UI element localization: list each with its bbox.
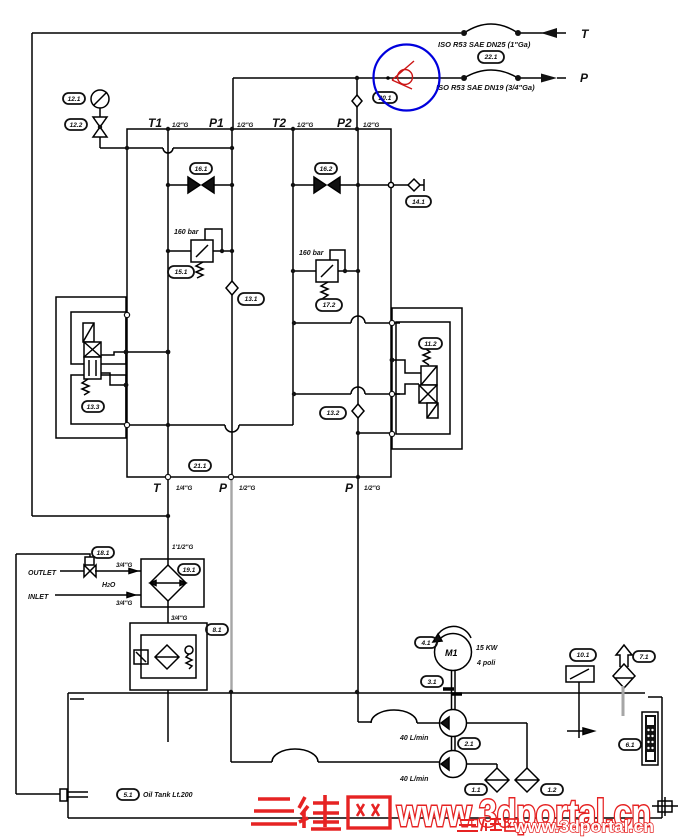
svg-text:17.2: 17.2: [323, 302, 336, 309]
svg-text:11.2: 11.2: [424, 341, 437, 348]
svg-text:18.1: 18.1: [97, 550, 110, 557]
svg-text:1'1/2"G: 1'1/2"G: [172, 544, 193, 551]
svg-text:8.1: 8.1: [212, 627, 221, 634]
svg-text:P: P: [219, 481, 228, 495]
svg-text:1/2"G: 1/2"G: [172, 122, 189, 129]
svg-text:P: P: [580, 71, 589, 85]
svg-text:40 L/min: 40 L/min: [399, 735, 428, 742]
svg-text:16.2: 16.2: [320, 166, 333, 173]
svg-text:13.1: 13.1: [245, 296, 258, 303]
svg-text:T: T: [153, 481, 162, 495]
svg-text:M1: M1: [445, 648, 458, 658]
svg-text:12.1: 12.1: [68, 96, 81, 103]
svg-text:3.1: 3.1: [427, 679, 436, 686]
svg-text:H2O: H2O: [102, 582, 116, 589]
svg-text:T2: T2: [272, 116, 286, 130]
svg-text:P2: P2: [337, 116, 352, 130]
svg-text:14.1: 14.1: [412, 199, 425, 206]
svg-text:6.1: 6.1: [625, 742, 634, 749]
svg-text:10.1: 10.1: [577, 652, 590, 659]
svg-text:T: T: [581, 27, 590, 41]
svg-text:160 bar: 160 bar: [299, 250, 325, 257]
svg-text:5.1: 5.1: [123, 792, 132, 799]
svg-text:40 L/min: 40 L/min: [399, 776, 428, 783]
svg-text:1/4"G: 1/4"G: [176, 485, 193, 492]
svg-text:Oil Tank Lt.200: Oil Tank Lt.200: [143, 792, 193, 799]
svg-text:3/4"G: 3/4"G: [116, 600, 133, 607]
svg-text:ISO R53 SAE DN19 (3/4"Ga): ISO R53 SAE DN19 (3/4"Ga): [436, 83, 535, 92]
svg-text:2.1: 2.1: [463, 741, 473, 748]
svg-text:4.1: 4.1: [420, 640, 430, 647]
svg-text:1/2"G: 1/2"G: [363, 122, 380, 129]
svg-text:www.3dportal.cn: www.3dportal.cn: [513, 817, 654, 836]
svg-text:4 poli: 4 poli: [476, 660, 496, 667]
svg-text:15 KW: 15 KW: [476, 645, 499, 652]
svg-text:15.1: 15.1: [175, 269, 188, 276]
svg-text:7.1: 7.1: [639, 654, 648, 661]
svg-text:P: P: [345, 481, 354, 495]
svg-text:T1: T1: [148, 116, 162, 130]
svg-text:3/4"G: 3/4"G: [171, 615, 188, 622]
svg-text:21.1: 21.1: [193, 463, 207, 470]
svg-text:ISO R53 SAE DN25 (1"Ga): ISO R53 SAE DN25 (1"Ga): [438, 40, 531, 49]
svg-text:P1: P1: [209, 116, 224, 130]
svg-text:1/2"G: 1/2"G: [237, 122, 254, 129]
svg-text:INLET: INLET: [28, 594, 49, 601]
svg-text:160 bar: 160 bar: [174, 229, 200, 236]
svg-text:1/2"G: 1/2"G: [239, 485, 256, 492]
svg-text:16.1: 16.1: [195, 166, 208, 173]
svg-text:1/2"G: 1/2"G: [364, 485, 381, 492]
svg-text:OUTLET: OUTLET: [28, 570, 57, 577]
svg-text:13.3: 13.3: [87, 404, 100, 411]
svg-text:13.2: 13.2: [327, 410, 340, 417]
svg-text:12.2: 12.2: [70, 122, 83, 129]
svg-text:22.1: 22.1: [484, 54, 498, 61]
svg-text:19.1: 19.1: [183, 567, 196, 574]
svg-text:1/2"G: 1/2"G: [297, 122, 314, 129]
svg-text:3/4"G: 3/4"G: [116, 562, 133, 569]
